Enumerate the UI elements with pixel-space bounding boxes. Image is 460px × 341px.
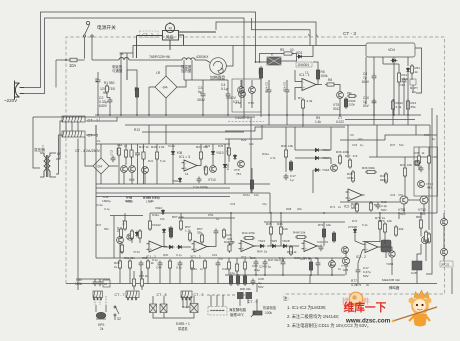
junction dots relay feed xyxy=(255,61,257,63)
resistor R49c dark xyxy=(243,274,246,286)
wire connector pins down xyxy=(94,296,96,305)
diode YD17 xyxy=(314,156,321,159)
wire right mid lines xyxy=(340,139,385,141)
capacitor C21 xyxy=(214,229,219,236)
capacitor C5 470u 25V xyxy=(267,88,272,95)
transistor VT17a xyxy=(441,219,448,226)
capacitor C23 xyxy=(254,260,259,267)
resistor R43c 1k xyxy=(140,277,143,288)
wire R6 xyxy=(317,79,319,85)
resistor RT1 10k xyxy=(322,227,325,239)
transistor VT16 xyxy=(421,236,428,243)
capacitor C10 1u 50V xyxy=(372,99,377,106)
bridge rectifier U1 04 xyxy=(149,70,183,115)
capacitor C34 xyxy=(316,261,321,268)
wire R13 line xyxy=(142,131,244,133)
wire band F top bus xyxy=(96,143,230,145)
diode VD25 xyxy=(271,244,278,247)
bridge rectifier D4 xyxy=(88,153,114,179)
resistor R28 xyxy=(227,146,230,157)
wire right col verticals xyxy=(376,125,378,157)
zener VD15 xyxy=(233,154,236,160)
capacitor C46 xyxy=(216,261,221,268)
connector CT-5 xyxy=(181,291,192,298)
resistor R41b 7k xyxy=(369,201,372,212)
transistor VT13b 945 xyxy=(342,257,349,264)
optocoupler V1232 xyxy=(160,304,167,313)
resistor R55 xyxy=(138,229,141,240)
wire module J bus y215 xyxy=(110,215,143,217)
module box right sub xyxy=(414,147,438,196)
resistor R612 3.3k xyxy=(391,99,394,111)
resistor R52 dark xyxy=(332,231,335,243)
wire bus y275 xyxy=(225,274,345,276)
wire VT1 link xyxy=(241,80,243,91)
wire step bus a xyxy=(225,127,345,131)
capacitor C6 47u xyxy=(285,88,290,95)
transistor VT6 xyxy=(121,166,128,173)
mascot stick xyxy=(393,307,437,321)
diode VD21 xyxy=(135,231,138,238)
resistor R43b xyxy=(427,154,430,165)
capacitor C14 1000u xyxy=(197,177,202,184)
component R1PY box xyxy=(410,79,416,85)
connector pin pads CT-7 xyxy=(93,298,190,301)
transistor VT14 xyxy=(342,247,349,254)
op-amp IC2-2 xyxy=(363,242,381,253)
capacitor C2 0.33u 630V xyxy=(108,98,113,105)
diode YD16 xyxy=(314,148,321,151)
wire VT5 xyxy=(336,85,340,92)
wire bus y258 xyxy=(96,257,345,259)
resistor R23 620 xyxy=(204,165,207,176)
resistor R5 10 xyxy=(282,52,294,55)
wire R1 C2 branch xyxy=(107,92,110,98)
resistor R70 1k xyxy=(378,219,381,231)
resistor R62 xyxy=(235,262,238,273)
wire AC line N inner loop xyxy=(23,18,244,117)
resistor R19 1.5k xyxy=(155,150,158,161)
resistor R85 xyxy=(427,232,430,244)
resistor R16 xyxy=(130,148,133,159)
wire right transistors xyxy=(443,226,445,249)
resistor R58 xyxy=(222,228,225,239)
wire bottom-left links xyxy=(152,296,154,304)
wire right verticals x430 x432 x437 xyxy=(429,125,431,157)
wire R41 drop xyxy=(398,64,400,71)
module box VT2 VT3 xyxy=(232,79,261,112)
wire junction arrows on dashed bus xyxy=(308,34,318,37)
wire bus y193 xyxy=(96,192,270,194)
resistor R44 10k xyxy=(403,166,406,178)
wire diode feeders xyxy=(294,127,296,150)
resistor R53 xyxy=(148,219,151,231)
resistor R42 820k xyxy=(384,172,387,184)
diode VD27 xyxy=(177,245,184,248)
zener VD9 xyxy=(178,177,181,183)
transistor V039 xyxy=(389,251,395,257)
connector CT-6 xyxy=(62,131,85,137)
wire right block frame xyxy=(309,275,311,284)
resistor R7 2.3k xyxy=(301,98,304,110)
resistor R49b dark xyxy=(236,274,239,286)
junction dots bus y115 xyxy=(97,114,409,116)
winding L1 7A xyxy=(119,58,129,61)
wire mid bottom links xyxy=(228,258,230,260)
wire C10 xyxy=(373,99,375,116)
mascot head xyxy=(411,297,429,315)
wire bus y222 xyxy=(264,221,345,223)
thermistor RT2 xyxy=(251,311,262,317)
wire thermistor link xyxy=(256,299,258,311)
wire R612 drop xyxy=(392,99,394,115)
wire bus y213 xyxy=(150,212,437,214)
diode VD4 symbol xyxy=(391,59,398,62)
capacitor C30a xyxy=(402,78,407,85)
wire CT pins xyxy=(65,122,67,131)
op-amp IC2-3 xyxy=(302,241,320,252)
rect VD4 block xyxy=(366,43,415,57)
capacitor C29 470 xyxy=(229,240,234,247)
wire VD4 box left edge drop xyxy=(365,57,367,104)
wire band F feeders xyxy=(95,125,97,144)
resistor R1 550 xyxy=(105,84,108,94)
resistor R4 700k xyxy=(259,66,262,80)
capacitor C44 xyxy=(158,261,163,268)
resistor R56 dark xyxy=(169,226,172,239)
module fermentation circuit box xyxy=(208,307,227,316)
resistor R36b 600k xyxy=(365,170,377,173)
wire VD4 block drops xyxy=(373,57,375,75)
resistor R65 xyxy=(309,260,312,272)
resistor R17b 17k xyxy=(348,158,351,169)
diode bridge small xyxy=(190,304,198,313)
wire R32 link xyxy=(251,168,253,178)
wire bus y125 xyxy=(125,124,430,126)
resistor R38 370k xyxy=(351,170,354,183)
diode YD18 xyxy=(314,168,321,171)
transistor VT21 xyxy=(127,234,133,240)
resistor R48 60k xyxy=(355,202,358,213)
wire right block links xyxy=(379,213,381,219)
wire module J bus y219 xyxy=(178,217,235,219)
op-amp IC1-1 xyxy=(300,79,319,91)
resistor R41 530k xyxy=(397,71,400,84)
diode VD26 xyxy=(168,245,175,248)
mascot crown xyxy=(414,290,429,298)
wire plug drop to transformer xyxy=(33,117,40,168)
transistor VT13a xyxy=(418,181,425,188)
wire thyristor legs xyxy=(240,93,242,108)
resistor R36 430k xyxy=(338,154,341,165)
label 1N4004 xyxy=(296,62,312,67)
capacitor C30 470 xyxy=(319,245,324,252)
connector XS2 xyxy=(126,291,139,298)
optocoupler V1230 xyxy=(150,304,157,313)
transistor VT20 xyxy=(117,237,124,244)
wire R51 xyxy=(411,63,413,65)
transistor VT9 xyxy=(238,161,245,168)
capacitor C25 5.1u xyxy=(281,260,286,267)
wire block mid drops xyxy=(403,84,405,115)
wire band F bottom bus 2 xyxy=(96,187,230,189)
resistor R31 xyxy=(289,160,292,172)
capacitor C8 7u 160V xyxy=(372,74,377,81)
wire feeders y125 to band F xyxy=(148,125,150,144)
capacitor C1 xyxy=(96,78,101,85)
AC plug XP ~220V xyxy=(15,81,25,100)
wire top third line to relay block xyxy=(252,18,311,46)
resistor R46 10k xyxy=(279,225,282,236)
svg-text:维库一下: 维库一下 xyxy=(344,301,387,314)
wire drops to fermentation box xyxy=(210,295,212,307)
capacitor C18 2.2u 50V xyxy=(376,203,381,210)
resistor R37 xyxy=(168,259,171,270)
capacitor C13 47u xyxy=(111,156,116,163)
wire C3 branch xyxy=(202,80,204,92)
resistor R49a dark xyxy=(229,274,232,286)
connector CT-7 xyxy=(93,291,103,298)
wire bus y117 xyxy=(33,116,255,118)
wire bridge connections xyxy=(148,87,150,115)
junction dots bus y213 xyxy=(230,212,422,214)
wire VD4 block right edge xyxy=(415,48,422,93)
resistor R35 xyxy=(146,259,149,270)
resistor R63 xyxy=(243,260,246,271)
resistor R44c 470k xyxy=(243,236,255,239)
capacitor C41 xyxy=(139,261,144,268)
resistor R22 39k xyxy=(199,150,202,161)
winding L2 765PG25+96 xyxy=(182,58,195,60)
resistor R51 1k xyxy=(410,64,413,75)
resistor R42b xyxy=(132,277,135,288)
zener VD22 xyxy=(162,228,165,234)
wire dashed link right of CT-5 xyxy=(207,294,252,296)
wire C5 xyxy=(268,80,270,88)
capacitor C3 5u 400V xyxy=(201,92,206,99)
wire right transistor links xyxy=(403,204,405,213)
wire C6 xyxy=(286,80,288,88)
capacitor C17 1u xyxy=(284,174,289,181)
wire C4 branch xyxy=(227,80,229,92)
transistor VT12 xyxy=(331,165,338,172)
resistor R40 xyxy=(203,259,206,270)
resistor R54 xyxy=(130,229,133,240)
resistor R32 dark xyxy=(250,178,253,191)
transistor VT10 xyxy=(210,166,217,173)
wire power row top link xyxy=(97,79,99,81)
resistor R47 20k xyxy=(295,235,307,238)
junction dot fuse node xyxy=(65,59,67,61)
wire R13 drop xyxy=(407,99,409,115)
wire C1 branch xyxy=(97,72,99,78)
wire module J links xyxy=(124,213,126,219)
wire bus y115 xyxy=(95,114,421,116)
transistor VT51 945 xyxy=(400,196,408,204)
wire feeder x313 xyxy=(312,170,314,193)
op-amp IC1-4 xyxy=(192,241,210,252)
resistor R33 1k xyxy=(118,259,121,270)
wire R14 xyxy=(118,144,120,146)
wire bottom module line xyxy=(66,283,310,285)
op-amp IC1-3 xyxy=(182,160,200,171)
wire band F drop links xyxy=(123,172,125,184)
wire opamp links xyxy=(316,84,322,86)
buzzer HA2 xyxy=(381,240,391,252)
wire step bus b xyxy=(225,125,262,139)
resistor R13 35k xyxy=(406,99,409,111)
capacitor C4 0.1u 1300V xyxy=(226,92,231,99)
resistor R109 220k dark xyxy=(344,97,347,109)
capacitor C45 0.1u xyxy=(178,261,183,268)
resistor R51a xyxy=(119,227,122,239)
diode VD11 xyxy=(223,163,226,170)
wire band K drops xyxy=(119,268,121,284)
zener VD8 xyxy=(171,150,174,156)
wire CT-6 link right xyxy=(86,125,96,135)
transistor VT15 xyxy=(329,261,336,268)
wire band F bottom bus xyxy=(96,183,270,185)
resistor R80 20k xyxy=(394,225,397,237)
capacitor C47 pair xyxy=(93,280,98,287)
component 1N4004 box xyxy=(440,261,453,267)
wire band F left edge xyxy=(95,144,97,184)
resistor R79 10k xyxy=(383,222,386,234)
resistor R84 xyxy=(419,218,422,230)
resistor R50 2.4k xyxy=(123,219,126,231)
op-amp IC1-2 xyxy=(147,241,165,252)
connector CT-9 blocks xyxy=(237,292,244,299)
transistor VT8 xyxy=(142,167,149,174)
component small box xyxy=(103,280,110,287)
resistor R17 1k xyxy=(142,150,145,161)
resistor R52a xyxy=(120,243,123,254)
transformer T1 xyxy=(40,153,56,177)
resistor R61 xyxy=(227,260,230,271)
wire control board frame top xyxy=(133,46,366,59)
transistor VT7 xyxy=(129,166,136,173)
capacitor C28 3u 50V xyxy=(251,279,256,286)
resistor R30 10k xyxy=(284,148,287,159)
transistor VT19 xyxy=(414,160,420,166)
wire left band links xyxy=(78,278,110,280)
resistor R39 xyxy=(190,259,193,270)
buzzer HA xyxy=(96,305,106,319)
dashed module box CT-3 xyxy=(66,37,445,294)
wire relay links xyxy=(256,61,268,63)
wire bus y119.5 xyxy=(345,119,415,121)
resistor R15 xyxy=(124,148,127,159)
resistor R45 1k xyxy=(417,154,420,165)
transistor VT13 945 xyxy=(420,196,428,204)
transistor VT18 xyxy=(441,249,448,256)
capacitor C12 xyxy=(135,151,140,158)
wire R4 drop xyxy=(260,78,262,117)
thyristor VT3 xyxy=(249,87,256,94)
wire bus y196 xyxy=(96,196,230,198)
op-amp IC2-8 xyxy=(346,189,365,201)
component K4 dark xyxy=(412,261,422,270)
wire fan feeder box xyxy=(216,22,316,46)
module box bottom dashes xyxy=(228,121,264,123)
resistor R88 xyxy=(424,230,427,242)
wire right stub x452 xyxy=(451,268,453,294)
fuse FU 10A xyxy=(56,58,85,87)
resistor R6 100k xyxy=(316,68,319,81)
transistor VT1 xyxy=(239,91,246,98)
switch S1 power xyxy=(83,21,93,60)
connector CT-1 xyxy=(62,116,85,122)
watermark badge circle xyxy=(349,292,363,306)
thyristor VT2 xyxy=(238,87,245,94)
wire diode links xyxy=(295,149,314,151)
fan motor M xyxy=(137,22,217,58)
op-amp IC2-1 xyxy=(239,241,257,252)
scan noise overlay xyxy=(0,0,1,1)
wire R7 drop xyxy=(302,108,304,117)
mascot body xyxy=(413,314,427,327)
wire band I links xyxy=(230,213,232,240)
zener VD10 xyxy=(211,150,214,156)
zener VD5 xyxy=(406,67,409,73)
wire module J left edge xyxy=(113,216,115,259)
heater plate EH xyxy=(210,58,227,75)
resistor R34 xyxy=(128,259,131,270)
wire bridge D4 links xyxy=(100,144,102,153)
resistor R2 vertical dark xyxy=(135,86,138,99)
relay K coil xyxy=(267,57,281,65)
wire R2 drop xyxy=(136,97,138,115)
wire winding connections xyxy=(129,59,182,61)
wire CT-1 link right xyxy=(86,117,117,121)
transistor VT5 9012 xyxy=(337,92,344,99)
old zener VD22 position xyxy=(161,209,164,215)
resistor R43 76 xyxy=(228,243,231,253)
wire heater to frame xyxy=(226,46,233,67)
svg-text:www.dzsc.com: www.dzsc.com xyxy=(345,317,391,324)
resistor R14 xyxy=(117,146,120,157)
wire winding drops to bus xyxy=(120,60,122,115)
wire AC line L outer loop xyxy=(23,12,256,88)
zener VD26b xyxy=(353,228,356,234)
diode VD3 xyxy=(297,55,304,58)
junction dots bus y275 xyxy=(255,274,333,276)
capacitor C17b 0.47u 50V xyxy=(356,268,361,275)
resistor R45b 10k xyxy=(269,225,272,236)
diode VD28 xyxy=(282,244,289,247)
resistor R70b 1k xyxy=(289,245,292,256)
capacitor C44b xyxy=(419,166,424,173)
diode VD24 xyxy=(259,244,266,247)
capacitor C24 0.1u xyxy=(263,260,268,267)
wire long feeders xyxy=(269,193,271,213)
wire transformer secondary xyxy=(56,121,63,159)
switch S2 xyxy=(114,306,119,320)
wire left riser CT to bottom xyxy=(77,139,79,291)
resistor R57b xyxy=(188,231,191,242)
resistor R8 xyxy=(325,83,336,86)
resistor RH 25k small xyxy=(347,94,357,97)
resistor R58b xyxy=(200,233,203,244)
